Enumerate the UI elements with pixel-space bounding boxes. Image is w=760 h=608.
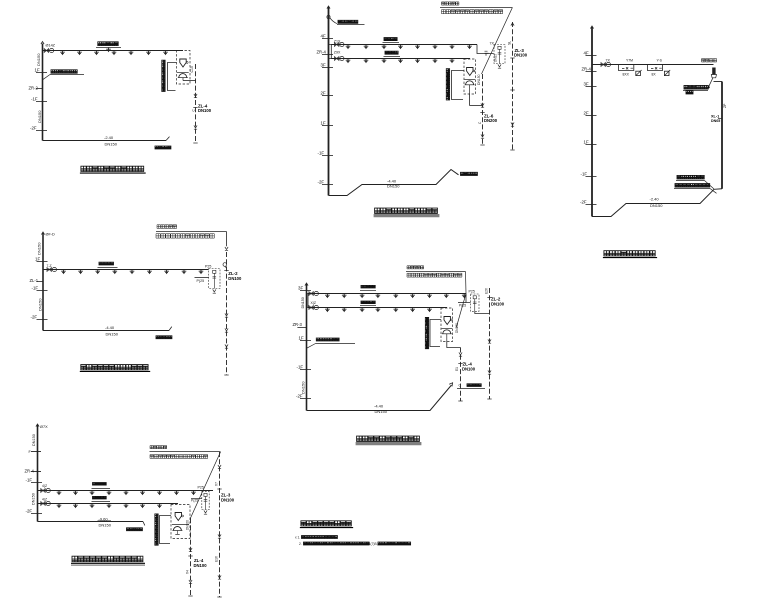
svg-text:DN150: DN150 xyxy=(32,434,36,446)
bottom pipe to pump (D1) xyxy=(43,140,167,142)
svg-text:DN150: DN150 xyxy=(38,298,43,311)
svg-text:-2F: -2F xyxy=(580,200,587,205)
end test device (D4) xyxy=(209,269,220,289)
label: stainless water tank (D3) xyxy=(684,85,708,89)
svg-text:-1F: -1F xyxy=(318,151,325,156)
svg-text:-2F: -2F xyxy=(296,394,303,399)
pump bracket (D1) xyxy=(162,60,165,91)
riser top arrow (D4) xyxy=(41,232,44,235)
sprinkler head xyxy=(182,270,187,275)
hydrant test group 2 (D3) xyxy=(648,65,663,71)
svg-text:DN150: DN150 xyxy=(37,110,42,123)
gate valve + signal valve xyxy=(309,305,319,309)
upper branch end drop (D2) xyxy=(477,45,494,54)
outlet pipe (D5) xyxy=(447,342,461,348)
sprinkler head xyxy=(94,51,99,56)
sprinkler head xyxy=(364,45,369,50)
svg-text:DN150: DN150 xyxy=(106,331,119,336)
floor level -1F xyxy=(322,155,333,157)
wet alarm valve (D5) xyxy=(442,330,452,334)
svg-text:DN100: DN100 xyxy=(198,108,212,113)
leader circle and note: connect to alarm valve (D2) xyxy=(327,15,330,18)
sprinkler head xyxy=(191,491,196,496)
svg-text:ZR-3: ZR-3 xyxy=(293,322,303,327)
bottom pipe to pump (D6) xyxy=(38,521,144,523)
floor level 3F xyxy=(322,67,333,69)
riser top arrow (D6) xyxy=(36,424,39,427)
riser ZL-2 (D5) xyxy=(489,288,491,399)
main riser (D5) xyxy=(306,284,308,411)
sprinkler head xyxy=(90,491,95,496)
sprinkler head xyxy=(342,294,347,299)
alarm valve enclosure (D6) xyxy=(171,505,190,539)
svg-text:-1F: -1F xyxy=(581,172,588,177)
svg-text:E1X: E1X xyxy=(215,555,219,562)
svg-text:1F: 1F xyxy=(299,336,304,341)
svg-text:-9.60: -9.60 xyxy=(99,517,109,522)
svg-text:8X: 8X xyxy=(652,72,657,76)
svg-text:7X: 7X xyxy=(606,58,611,62)
gate valve + signal valve xyxy=(309,291,319,295)
svg-text:DN150: DN150 xyxy=(36,53,41,66)
sprinkler head xyxy=(124,504,129,509)
pump bracket (D6) xyxy=(155,514,158,545)
sprinkler head xyxy=(95,270,100,275)
svg-text:DN150: DN150 xyxy=(375,409,388,414)
svg-text:C: C xyxy=(459,383,462,387)
sprinkler head xyxy=(199,270,204,275)
leader: to basement-1 alarm valve (D1) xyxy=(51,70,77,73)
label: sprinkler signal valve (D6 lower) xyxy=(93,496,107,499)
fire hydrant 1 (D3) xyxy=(636,70,642,76)
sprinkler head xyxy=(427,308,432,313)
sprinkler head xyxy=(462,294,467,299)
sprinkler head xyxy=(398,45,403,50)
sprinkler head xyxy=(73,504,78,509)
sprinkler head xyxy=(433,59,438,64)
riser top arrow (D2) xyxy=(327,6,330,9)
svg-text:DN150: DN150 xyxy=(301,381,306,394)
sprinkler head xyxy=(467,45,472,50)
branch pipe 1F (D1) xyxy=(43,50,184,52)
note text (D4) xyxy=(157,225,177,229)
svg-text:DN100: DN100 xyxy=(194,563,208,568)
tick ZR-2 (D1) xyxy=(36,88,43,90)
floor level 4F xyxy=(586,55,597,57)
title: basement-1 sprinkler schematic xyxy=(81,365,148,370)
sprinkler head xyxy=(325,294,330,299)
sprinkler head xyxy=(410,294,415,299)
main riser (D6) xyxy=(37,425,39,522)
title: third-floor sprinkler schematic xyxy=(375,208,438,213)
floor level 1F xyxy=(37,261,48,263)
svg-text:F: F xyxy=(29,450,32,454)
sprinkler head xyxy=(147,270,152,275)
branch loop connector (D5) xyxy=(307,294,309,308)
floor level 1F xyxy=(300,340,311,342)
upper branch pipe (D2) xyxy=(331,44,477,46)
sprinkler head xyxy=(164,270,169,275)
svg-text:E1: E1 xyxy=(455,367,459,371)
sprinkler head xyxy=(57,491,62,496)
svg-text:DN150: DN150 xyxy=(301,297,305,308)
sprinkler head xyxy=(427,294,432,299)
sprinkler head xyxy=(90,504,95,509)
sprinkler head xyxy=(410,308,415,313)
sprinkler head xyxy=(174,491,179,496)
tick ZR-1 (D4) xyxy=(37,281,44,283)
svg-text:X7: X7 xyxy=(214,482,218,486)
svg-text:P(25: P(25 xyxy=(459,303,466,307)
label: to sprinkler pump room (D2) xyxy=(461,172,478,175)
sprinkler head xyxy=(376,294,381,299)
svg-text:-4.40: -4.40 xyxy=(374,404,384,409)
sprinkler head xyxy=(360,294,365,299)
sprinkler head xyxy=(140,491,145,496)
sprinkler head xyxy=(382,45,387,50)
upper branch pipe (D5) xyxy=(308,293,466,295)
svg-text:3F: 3F xyxy=(584,82,589,87)
svg-text:DN150: DN150 xyxy=(455,323,459,333)
divider (D1) xyxy=(177,72,189,74)
svg-text:4(Z: 4(Z xyxy=(42,484,47,488)
alarm valve enclosure (D2) xyxy=(464,59,476,94)
label: to sprinkler pump room (D4) xyxy=(156,336,172,339)
svg-text:-2F: -2F xyxy=(318,180,325,185)
title: fire water tank schematic xyxy=(604,251,655,256)
label: sprinkler signal valve (D5 upper) xyxy=(361,285,375,288)
wet alarm valve (D6) xyxy=(172,527,182,531)
wet alarm valve (D1) xyxy=(178,74,188,78)
sprinkler head xyxy=(129,51,134,56)
sprinkler head xyxy=(73,491,78,496)
riser ZL-3 (D2) xyxy=(512,22,514,150)
sprinkler head xyxy=(157,491,162,496)
sprinkler head xyxy=(57,504,62,509)
svg-text:DN150: DN150 xyxy=(37,242,42,255)
riser ZL-2 (D4) xyxy=(226,252,228,375)
floor level 2F xyxy=(322,95,333,97)
svg-text:1F: 1F xyxy=(321,121,326,126)
floor level -2F xyxy=(322,184,333,186)
wet alarm valve (D2) xyxy=(465,81,475,85)
gate valve + signal valve xyxy=(335,56,345,60)
svg-text:-2F: -2F xyxy=(26,509,33,514)
label: to sprinkler pump room (D5) xyxy=(467,384,481,387)
floor level 3F xyxy=(586,86,597,88)
branch loop connector (D2) xyxy=(329,45,332,59)
svg-text:Y7M: Y7M xyxy=(626,58,633,62)
floor level -1F xyxy=(300,369,311,371)
sprinkler head xyxy=(376,308,381,313)
riser top arrow (D5) xyxy=(305,283,308,286)
floor level -1F xyxy=(586,176,597,178)
svg-text:ZR-4: ZR-4 xyxy=(317,49,327,54)
svg-text:-2.40: -2.40 xyxy=(650,196,660,201)
svg-text:P25: P25 xyxy=(205,264,211,268)
sprinkler head xyxy=(342,308,347,313)
note leader diagonal (D2) xyxy=(482,8,513,75)
sprinkler head xyxy=(107,504,112,509)
svg-text:P25: P25 xyxy=(469,289,475,293)
bottom pipe to pump (D2) xyxy=(329,170,459,196)
svg-text:DN150: DN150 xyxy=(32,493,36,505)
main riser (D3) xyxy=(591,27,593,217)
deluge valve (D6) xyxy=(175,513,183,521)
leader: to basement-1 alarm valve (D5) xyxy=(316,338,339,341)
svg-text:-2F: -2F xyxy=(30,126,37,131)
note leader polyline (D5) xyxy=(456,272,466,328)
main riser (D1) xyxy=(42,44,44,141)
sprinkler head xyxy=(394,308,399,313)
valve outlet stem (D1) xyxy=(182,78,184,81)
svg-text:4(Z: 4(Z xyxy=(42,498,47,502)
svg-text:Y-S: Y-S xyxy=(657,59,663,63)
bottom pipe (D3) xyxy=(592,189,722,217)
sprinkler head xyxy=(107,491,112,496)
riser ZL-6 (D2) xyxy=(482,74,484,145)
small tick (D6) xyxy=(31,451,41,453)
side test sprinkler (D2) xyxy=(485,51,489,56)
svg-text:X4: X4 xyxy=(185,570,189,574)
svg-text:3F: 3F xyxy=(298,286,303,291)
svg-text:E2X: E2X xyxy=(485,287,489,294)
title: sprinkler system schematic xyxy=(301,521,351,526)
svg-text:ZP: ZP xyxy=(723,103,727,108)
svg-text:DN150: DN150 xyxy=(650,203,663,208)
svg-text:P(25: P(25 xyxy=(197,279,205,283)
sprinkler head xyxy=(360,308,365,313)
svg-text:C: C xyxy=(191,109,195,112)
svg-text:DN100: DN100 xyxy=(514,53,528,58)
svg-text:1F: 1F xyxy=(584,140,589,145)
lower branch pipe (D2) xyxy=(331,58,470,60)
sprinkler head xyxy=(61,270,66,275)
svg-text:7-Z: 7-Z xyxy=(47,264,52,268)
sprinkler head xyxy=(444,294,449,299)
svg-text:ZL-1: ZL-1 xyxy=(30,278,39,283)
sprinkler head xyxy=(450,59,455,64)
svg-text:2F: 2F xyxy=(584,111,589,116)
label: sprinkler signal valve (D4) xyxy=(99,262,114,265)
sprinkler head xyxy=(163,51,168,56)
svg-text:XL-1: XL-1 xyxy=(711,114,719,118)
svg-text:-1F: -1F xyxy=(31,97,38,102)
tick ZR-3 (D5) xyxy=(297,327,306,329)
sprinkler head xyxy=(433,45,438,50)
outlet pipe down (D2) xyxy=(469,94,471,106)
svg-text:-2.40: -2.40 xyxy=(104,135,114,140)
svg-text:1F: 1F xyxy=(35,257,40,262)
deluge valve (D5) xyxy=(444,317,452,325)
svg-text:ZR-2: ZR-2 xyxy=(29,86,39,91)
riser ZL-4 (D6) xyxy=(190,518,192,596)
riser top arrow (D3) xyxy=(590,26,593,29)
sprinkler head xyxy=(450,45,455,50)
floor level 3F xyxy=(300,290,311,292)
floor level 1F xyxy=(36,72,47,74)
tick ZR-4 (D6) xyxy=(31,471,41,473)
tick ZR-4 (D3) xyxy=(586,71,597,73)
svg-text:C: C xyxy=(478,121,482,124)
sprinkler below label (D1) xyxy=(106,48,111,53)
floor level -2F xyxy=(36,130,47,132)
svg-text:DN150: DN150 xyxy=(387,184,400,189)
sprinkler head xyxy=(394,294,399,299)
upper branch pipe (D6) xyxy=(38,490,214,492)
svg-text:DN100: DN100 xyxy=(491,301,505,306)
svg-text:2F: 2F xyxy=(321,91,326,96)
sprinkler head xyxy=(415,59,420,64)
sprinkler head xyxy=(398,59,403,64)
gate valve + signal valve xyxy=(335,42,345,46)
label: sprinkler signal valve (D1) xyxy=(98,42,118,46)
floor level 1F xyxy=(586,144,597,146)
leader to tank label (D3) xyxy=(709,78,713,87)
sprinkler head xyxy=(364,59,369,64)
svg-text:ZR-4: ZR-4 xyxy=(25,468,35,473)
outlet to riser ZL-4 (D1) xyxy=(183,80,196,82)
gate valve + signal valve xyxy=(41,488,51,492)
svg-text:8XX: 8XX xyxy=(623,72,630,76)
lower branch pipe (D5) xyxy=(308,307,447,309)
gate valve + signal valve xyxy=(44,48,54,52)
svg-text:Ø7X: Ø7X xyxy=(40,425,48,429)
svg-text:P25: P25 xyxy=(198,486,204,490)
label: sprinkler signal valve (D6 upper) xyxy=(93,483,107,486)
svg-text:DN100: DN100 xyxy=(221,497,235,502)
floor level -2F xyxy=(37,319,48,321)
svg-text:Z9X: Z9X xyxy=(334,50,341,54)
note text (D2) xyxy=(442,2,459,5)
svg-text:-1F: -1F xyxy=(26,478,33,483)
note leader diagonal (D6) xyxy=(191,452,221,518)
label: sprinkler signal valve (D5 lower) xyxy=(361,301,375,304)
sprinkler head xyxy=(112,51,117,56)
svg-text:DN200: DN200 xyxy=(484,118,498,123)
title: first-floor sprinkler schematic xyxy=(81,166,144,171)
label: sprinkler signal (D2 lower) xyxy=(385,51,398,54)
gate valve + signal valve xyxy=(41,501,51,505)
riser top arrow (D1) xyxy=(41,42,44,45)
upper branch end drop (D5) xyxy=(466,294,471,303)
note text (D5) xyxy=(407,266,424,269)
svg-text:-4.40: -4.40 xyxy=(105,325,115,330)
label: auto sprinkler note (D3) xyxy=(702,59,717,62)
svg-text:DN150: DN150 xyxy=(477,74,481,85)
svg-text:X(Z: X(Z xyxy=(311,301,316,305)
title: second-floor sprinkler schematic xyxy=(357,436,420,441)
sprinkler head xyxy=(325,308,330,313)
branch pipe (D4) xyxy=(43,269,209,271)
svg-text:4F: 4F xyxy=(321,34,326,39)
gate valve + signal valve xyxy=(601,62,611,66)
bottom pipe to pump (D5) xyxy=(307,385,452,411)
svg-text:C15: C15 xyxy=(190,66,194,72)
pump bracket (D5) xyxy=(425,317,428,348)
pump bracket (D2) xyxy=(446,69,449,100)
title: basement-2 sprinkler schematic xyxy=(72,556,143,562)
svg-text:4F: 4F xyxy=(584,51,589,56)
riser ZL-4 (D1) xyxy=(195,64,197,143)
svg-text:DN150: DN150 xyxy=(105,141,118,146)
end test device (D5) xyxy=(471,294,480,311)
floor level -1F xyxy=(37,290,48,292)
main riser (D4) xyxy=(42,233,44,331)
end test device (D2) xyxy=(494,45,505,64)
svg-text:Ø14Z: Ø14Z xyxy=(46,44,56,48)
hydrant test group 1 (D3) xyxy=(619,65,634,71)
svg-text:P(25: P(25 xyxy=(191,498,198,502)
sprinkler head xyxy=(382,59,387,64)
svg-text:-1F: -1F xyxy=(32,286,39,291)
floor level 4F xyxy=(322,38,333,40)
label: sprinkler signal (D2 upper) xyxy=(384,38,397,41)
svg-text:1F: 1F xyxy=(35,68,40,73)
svg-text:ØF-D: ØF-D xyxy=(46,233,56,237)
tick ZR-4 (D2) xyxy=(322,54,333,56)
sprinkler head xyxy=(113,270,118,275)
deluge valve (D1) xyxy=(180,59,188,67)
svg-text:DN65: DN65 xyxy=(711,119,720,123)
bottom pipe to pump (D4) xyxy=(43,330,169,332)
floor level -2F xyxy=(31,513,42,515)
label: to sprinkler pump room (D6) xyxy=(126,528,142,531)
svg-text:3F: 3F xyxy=(321,63,326,68)
floor level 1F xyxy=(322,125,333,127)
sprinkler head xyxy=(157,504,162,509)
svg-text:-2F: -2F xyxy=(31,315,38,320)
svg-text:-1F: -1F xyxy=(297,365,304,370)
svg-text:DN100: DN100 xyxy=(186,520,190,530)
riser ZL-4 (D5) xyxy=(460,348,462,402)
roof test hydrant / tank (D3) xyxy=(712,68,715,75)
sprinkler head xyxy=(78,270,83,275)
svg-text:DN25: DN25 xyxy=(493,54,497,62)
note text (D6) xyxy=(150,446,167,449)
label: to sprinkler pump room (D1) xyxy=(155,146,171,149)
sprinkler head xyxy=(77,51,82,56)
lower branch pipe (D6) xyxy=(38,503,179,505)
connect to down pipe (D3) xyxy=(714,81,723,83)
floor level 2F xyxy=(586,115,597,117)
sprinkler head xyxy=(124,491,129,496)
gate valve + signal valve xyxy=(47,267,57,271)
svg-text:Z1X: Z1X xyxy=(334,39,341,43)
floor level -1F xyxy=(36,101,47,103)
svg-text:SL: SL xyxy=(507,41,511,45)
svg-text:DN100: DN100 xyxy=(228,276,242,281)
roof branch pipe (D3) xyxy=(592,64,714,66)
sprinkler head xyxy=(130,270,135,275)
svg-text:x 1.: x 1. xyxy=(295,536,300,540)
alarm valve enclosure (D5) xyxy=(441,308,453,342)
floor level -2F xyxy=(586,204,597,206)
sprinkler head xyxy=(140,504,145,509)
floor level -2F xyxy=(300,398,311,400)
sprinkler head xyxy=(415,45,420,50)
alarm valve enclosure (D1) xyxy=(177,51,191,85)
fire hydrant 2 (D3) xyxy=(664,70,670,76)
sprinkler head xyxy=(346,59,351,64)
outlet to riser ZL-2 (D5) xyxy=(475,311,490,313)
sprinkler head xyxy=(146,51,151,56)
sprinkler head xyxy=(346,45,351,50)
sprinkler head xyxy=(60,51,65,56)
svg-text:DN150: DN150 xyxy=(99,523,112,528)
svg-text:ZR-4: ZR-4 xyxy=(582,67,592,72)
leader labels bottom (D3) xyxy=(677,175,704,179)
